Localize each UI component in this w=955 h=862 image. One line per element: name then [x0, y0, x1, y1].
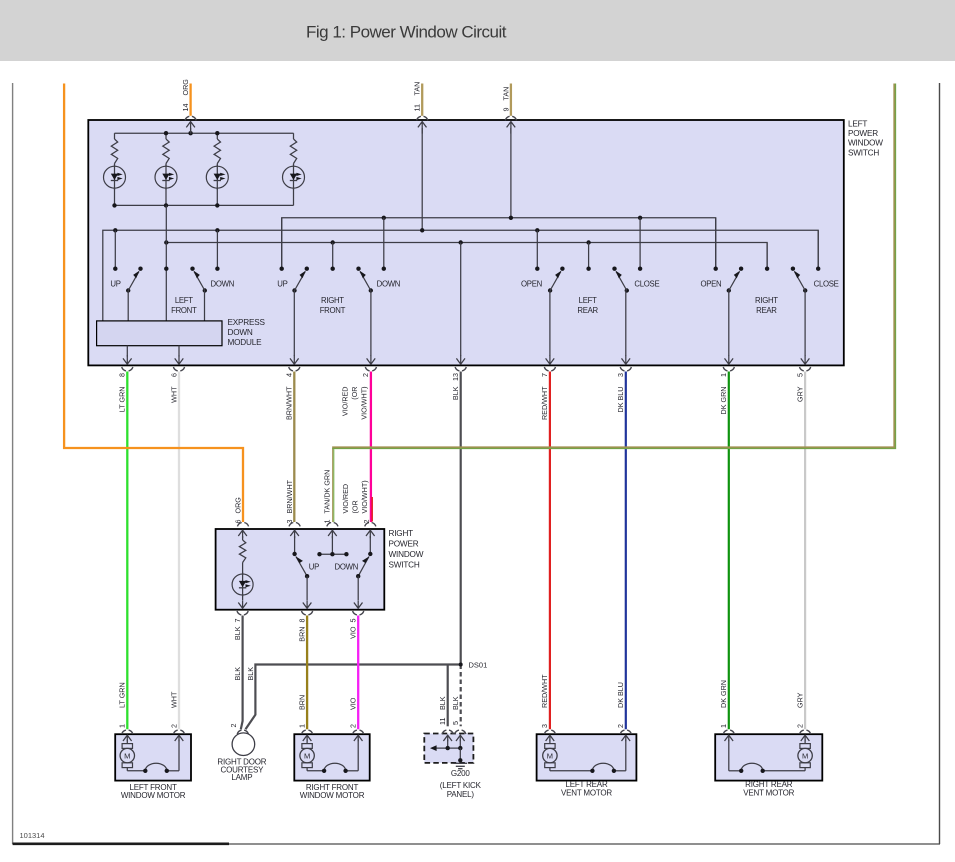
- wire ORG from left edge to right switch pin6: [64, 84, 243, 523]
- svg-text:3: 3: [285, 520, 294, 524]
- LED illumination lamp 3: [206, 165, 228, 206]
- svg-text:DK GRN: DK GRN: [719, 387, 728, 415]
- svg-text:OPEN: OPEN: [700, 279, 721, 288]
- svg-text:TAN/DK GRN: TAN/DK GRN: [323, 470, 332, 514]
- wire left front common from lamp bus through bus C: [165, 205, 167, 321]
- right switch pin8 exit connector and label: [297, 611, 312, 642]
- wire TAN/DK GRN from right edge to right switch pin1: [333, 84, 894, 523]
- svg-text:3: 3: [540, 724, 549, 728]
- wire left front switch arm outputs to express down module: [128, 291, 204, 321]
- right switch pin5 exit connector and label: [349, 611, 364, 639]
- svg-text:5: 5: [795, 373, 804, 377]
- junction dots bus B: [113, 228, 539, 232]
- svg-text:DK BLU: DK BLU: [616, 387, 625, 413]
- switch LEFT REAR contacts: [535, 267, 642, 293]
- pin 6 label: [169, 373, 178, 403]
- svg-text:TAN: TAN: [501, 87, 510, 101]
- svg-text:POWER: POWER: [848, 129, 878, 138]
- resistor lamp R2: [163, 133, 169, 166]
- svg-text:SWITCH: SWITCH: [848, 148, 879, 157]
- svg-text:VIO: VIO: [349, 697, 358, 710]
- svg-text:1: 1: [118, 724, 127, 728]
- wire BLK dashed DS01 to G200 pin5: [460, 665, 462, 727]
- svg-text:FRONT: FRONT: [171, 306, 197, 315]
- svg-text:(LEFT KICK: (LEFT KICK: [440, 781, 482, 790]
- resistor R5 in right switch: [238, 530, 247, 574]
- svg-text:LEFT: LEFT: [175, 296, 193, 305]
- wire DK BLU pin3 to left rear vent motor: [625, 372, 627, 730]
- svg-text:8: 8: [297, 619, 306, 623]
- label RIGHT DOOR COURTESY LAMP: [217, 758, 266, 783]
- LED illumination lamp in right switch: [232, 573, 253, 609]
- svg-text:BLK: BLK: [246, 667, 255, 681]
- wire left rear CLOSE terminal drop: [639, 218, 641, 269]
- svg-text:WINDOW MOTOR: WINDOW MOTOR: [121, 791, 186, 800]
- component right door courtesy lamp: [232, 730, 255, 755]
- wire right front UP terminal drop: [281, 218, 283, 269]
- svg-text:DK BLU: DK BLU: [616, 682, 625, 708]
- svg-text:CLOSE: CLOSE: [814, 279, 839, 288]
- svg-text:(OR: (OR: [351, 500, 360, 513]
- junction dots bus A: [382, 216, 643, 220]
- wire DK GRN pin1 to right rear vent motor: [728, 372, 730, 730]
- svg-text:GRY: GRY: [795, 692, 804, 708]
- svg-text:VIO: VIO: [349, 626, 358, 639]
- switch RIGHT FRONT contacts: [280, 267, 386, 293]
- svg-text:BRN/WHT: BRN/WHT: [285, 479, 294, 513]
- pin 2 connector at big box bottom: [365, 367, 376, 371]
- svg-text:VIO/RED: VIO/RED: [340, 387, 349, 417]
- svg-text:2: 2: [361, 373, 370, 377]
- wire right front DOWN terminal drop: [383, 218, 385, 269]
- component G200 ground splice box: [424, 734, 473, 763]
- G200 pin connectors: [442, 730, 466, 734]
- svg-text:14: 14: [181, 104, 190, 112]
- label RIGHT REAR VENT MOTOR: [743, 780, 794, 797]
- svg-text:13: 13: [451, 373, 460, 381]
- label UP DOWN right switch: [309, 562, 358, 571]
- right switch pin6 entry connector and label: [233, 497, 248, 527]
- svg-text:(OR: (OR: [350, 387, 359, 400]
- wire TAN pin9 top entry: [510, 84, 512, 116]
- wire right rear CLOSE terminal drop: [817, 230, 819, 268]
- svg-text:VENT MOTOR: VENT MOTOR: [743, 788, 794, 797]
- svg-text:RED/WHT: RED/WHT: [540, 386, 549, 420]
- svg-text:BLK: BLK: [451, 696, 460, 710]
- svg-text:5: 5: [349, 619, 358, 623]
- wire right rear switch outputs to pins 1 and 5: [725, 291, 810, 365]
- wire BLK right switch pin7 to courtesy lamp: [241, 616, 243, 730]
- svg-text:101314: 101314: [20, 831, 45, 840]
- svg-text:FRONT: FRONT: [320, 306, 346, 315]
- component LEFT FRONT WINDOW MOTOR box: [115, 734, 191, 780]
- svg-text:2: 2: [795, 724, 804, 728]
- svg-text:M: M: [547, 752, 553, 761]
- svg-text:DOWN: DOWN: [377, 279, 401, 288]
- svg-text:SWITCH: SWITCH: [389, 561, 420, 570]
- svg-text:Fig 1: Power Window Circuit: Fig 1: Power Window Circuit: [306, 23, 507, 42]
- svg-text:7: 7: [233, 619, 242, 623]
- svg-text:M: M: [304, 752, 310, 761]
- svg-text:11: 11: [438, 718, 447, 725]
- motor M in RIGHT REAR VENT MOTOR: [800, 744, 810, 749]
- label RIGHT FRONT WINDOW MOTOR: [300, 783, 365, 800]
- svg-text:EXPRESS: EXPRESS: [228, 318, 266, 327]
- wire VIO right switch pin5 to right front motor pin2: [357, 616, 359, 730]
- svg-text:LAMP: LAMP: [231, 773, 252, 782]
- svg-text:6: 6: [233, 520, 242, 524]
- LED illumination lamp 4: [283, 165, 305, 206]
- svg-text:LEFT: LEFT: [848, 120, 867, 129]
- page frame right border: [939, 83, 941, 844]
- right switch pin1 entry connector and label: [323, 470, 338, 527]
- svg-text:UP: UP: [309, 562, 319, 571]
- pin 6 connector at big box bottom: [173, 367, 184, 371]
- label UP/DOWN LEFT FRONT: [110, 279, 234, 315]
- wire left rear OPEN terminal drop: [536, 230, 538, 268]
- component U2 RIGHT POWER WINDOW SWITCH box: [216, 529, 385, 610]
- svg-text:DK GRN: DK GRN: [719, 680, 728, 708]
- page frame bottom border: [13, 843, 940, 845]
- resistor lamp R3: [214, 133, 220, 166]
- pin labels LEFT FRONT WINDOW MOTOR: [118, 682, 179, 728]
- label LEFT FRONT WINDOW MOTOR: [121, 783, 186, 800]
- wire BRN/WHT pin4 to right switch pin3: [293, 372, 295, 523]
- svg-text:CLOSE: CLOSE: [634, 279, 659, 288]
- svg-text:RIGHT: RIGHT: [321, 296, 344, 305]
- junction dots bus C: [164, 240, 591, 244]
- pin 5 connector at big box bottom: [800, 367, 811, 371]
- svg-text:VIO/WHT): VIO/WHT): [359, 387, 368, 420]
- pin 9 TAN entry arrow into box: [505, 116, 516, 218]
- LED illumination lamp 1: [104, 165, 126, 206]
- wire TAN pin11 top entry: [421, 84, 423, 116]
- wires inside LEFT REAR VENT MOTOR: [546, 735, 631, 773]
- svg-text:1: 1: [719, 373, 728, 377]
- svg-text:RED/WHT: RED/WHT: [540, 674, 549, 708]
- svg-text:OPEN: OPEN: [521, 279, 542, 288]
- svg-text:REAR: REAR: [577, 306, 598, 315]
- motor M in RIGHT FRONT WINDOW MOTOR: [302, 744, 312, 749]
- motor M in LEFT FRONT WINDOW MOTOR: [122, 744, 132, 749]
- label LEFT POWER WINDOW SWITCH: [848, 120, 883, 158]
- svg-text:UP: UP: [277, 279, 287, 288]
- svg-text:DOWN: DOWN: [228, 328, 253, 337]
- wire LT GRN pin8 to left front motor: [126, 372, 128, 730]
- svg-text:8: 8: [118, 373, 127, 377]
- switch LEFT FRONT contacts: [113, 267, 219, 293]
- resistor lamp R4: [290, 133, 296, 166]
- splice DS01: [459, 663, 463, 667]
- page frame left border: [12, 83, 14, 844]
- svg-text:5: 5: [451, 721, 460, 725]
- svg-text:6: 6: [169, 373, 178, 377]
- pin connectors LEFT FRONT WINDOW MOTOR: [122, 730, 185, 734]
- label BLK at G200 pin5: [451, 696, 460, 725]
- right switch pin2 entry connector and label: [341, 480, 376, 526]
- pin 14 ORG label: [181, 79, 190, 112]
- wire left front UP terminal drop: [114, 230, 116, 268]
- svg-text:WHT: WHT: [169, 691, 178, 708]
- pin 14 ORG entry arrow into box: [185, 116, 196, 133]
- svg-text:WHT: WHT: [169, 386, 178, 403]
- pin 7 connector at big box bottom: [544, 367, 555, 371]
- pin 9 TAN label: [501, 87, 510, 112]
- label UP/DOWN RIGHT FRONT: [277, 279, 400, 315]
- label EXPRESS DOWN MODULE: [228, 318, 266, 347]
- svg-text:VIO/RED: VIO/RED: [341, 484, 350, 514]
- wires inside RIGHT REAR VENT MOTOR: [725, 735, 810, 773]
- svg-text:1: 1: [719, 724, 728, 728]
- right switch DOWN contact bar: [317, 530, 348, 556]
- pin labels RIGHT REAR VENT MOTOR: [719, 680, 804, 728]
- svg-text:2: 2: [229, 724, 238, 728]
- wire GRY pin5 to right rear vent motor: [804, 372, 806, 730]
- svg-text:BLK: BLK: [233, 667, 242, 681]
- pin 7 label: [540, 373, 549, 420]
- motor M in LEFT REAR VENT MOTOR: [545, 744, 555, 749]
- svg-text:BRN/WHT: BRN/WHT: [285, 386, 294, 420]
- svg-text:WINDOW: WINDOW: [848, 139, 883, 148]
- label RIGHT POWER WINDOW SWITCH: [389, 529, 424, 570]
- svg-text:M: M: [124, 752, 130, 761]
- label OPEN/CLOSE LEFT REAR: [521, 279, 659, 315]
- wire left rear common drop: [588, 243, 590, 269]
- LED illumination lamp 2: [155, 165, 177, 206]
- svg-text:UP: UP: [110, 279, 120, 288]
- wire WHT pin6 to left front motor: [178, 372, 180, 730]
- svg-text:BLK: BLK: [451, 386, 460, 400]
- wire left front DOWN terminal drop: [216, 230, 218, 268]
- wire internal bus B: [103, 230, 818, 321]
- pin 2 label: [361, 373, 370, 377]
- svg-text:RIGHT: RIGHT: [755, 296, 778, 305]
- pin 1 label: [719, 373, 728, 414]
- pin 13 label: [451, 373, 460, 400]
- pin 8 label: [118, 373, 127, 412]
- wire right front switch outputs to pins 4 and 2: [290, 291, 375, 365]
- svg-text:1: 1: [297, 724, 306, 728]
- svg-text:WINDOW MOTOR: WINDOW MOTOR: [300, 791, 365, 800]
- pin connectors RIGHT FRONT WINDOW MOTOR: [302, 730, 364, 734]
- svg-text:RIGHT: RIGHT: [389, 529, 414, 538]
- pin 4 connector at big box bottom: [289, 367, 300, 371]
- svg-text:PANEL): PANEL): [447, 790, 475, 799]
- page frame bottom-left dark segment: [13, 842, 229, 845]
- pin 3 connector at big box bottom: [620, 367, 631, 371]
- svg-text:WINDOW: WINDOW: [389, 550, 424, 559]
- label LEFT REAR VENT MOTOR: [561, 780, 612, 797]
- svg-text:2: 2: [349, 724, 358, 728]
- wire pin13 BLK drop inside box: [456, 243, 465, 365]
- component EXPRESS DOWN MODULE box: [97, 321, 222, 346]
- svg-text:7: 7: [540, 373, 549, 377]
- wire lamp top bus: [115, 132, 294, 134]
- wire internal bus C: [166, 243, 767, 269]
- svg-text:2: 2: [362, 520, 371, 524]
- svg-text:3: 3: [616, 373, 625, 377]
- wire right rear OPEN terminal drop: [715, 218, 717, 269]
- pin 11 TAN entry arrow into box: [417, 116, 428, 230]
- svg-text:BRN: BRN: [297, 695, 306, 710]
- pin 3 label: [616, 373, 625, 412]
- right switch UP contact: [290, 530, 311, 608]
- svg-text:VENT MOTOR: VENT MOTOR: [561, 788, 612, 797]
- svg-text:POWER: POWER: [389, 540, 419, 549]
- switch RIGHT REAR contacts: [714, 267, 821, 293]
- svg-text:DS01: DS01: [469, 661, 488, 670]
- wire right front common drop: [332, 243, 334, 269]
- resistor lamp R1: [111, 133, 117, 166]
- wire lamp bottom bus: [115, 204, 294, 206]
- svg-text:9: 9: [501, 108, 510, 112]
- svg-text:11: 11: [413, 104, 422, 111]
- right switch pin3 entry connector and label: [285, 479, 300, 526]
- wires inside G200: [430, 735, 465, 762]
- svg-text:2: 2: [169, 724, 178, 728]
- junction dots lamp buses: [112, 131, 219, 208]
- right switch pin7 exit connector and label: [233, 611, 248, 640]
- pin 2 VIO/RED (OR VIO/WHT) 3-line label: [340, 387, 368, 420]
- pin labels RIGHT FRONT WINDOW MOTOR: [297, 724, 357, 728]
- wires inside RIGHT FRONT WINDOW MOTOR: [303, 735, 363, 773]
- wire ORG pin14 top entry: [189, 84, 191, 116]
- wire express down module outputs: [123, 346, 183, 365]
- label G200 (LEFT KICK PANEL): [440, 769, 482, 799]
- component LEFT REAR VENT MOTOR box: [537, 734, 637, 780]
- wire left rear switch outputs to pins 7 and 3: [546, 291, 631, 365]
- svg-text:DOWN: DOWN: [335, 562, 359, 571]
- wire BRN right switch pin8 to right front motor pin1: [306, 616, 308, 730]
- svg-text:LT GRN: LT GRN: [118, 682, 127, 708]
- component U1 LEFT POWER WINDOW SWITCH box: [88, 120, 844, 365]
- svg-text:4: 4: [285, 373, 294, 377]
- svg-text:ORG: ORG: [233, 497, 242, 514]
- pin 11 TAN label: [413, 82, 422, 112]
- svg-text:GRY: GRY: [795, 386, 804, 402]
- right switch second arm: [354, 530, 375, 608]
- svg-text:2: 2: [616, 724, 625, 728]
- pin 13 connector at big box bottom: [455, 367, 466, 371]
- svg-text:M: M: [802, 752, 808, 761]
- label BLK at G200 pin11: [438, 696, 447, 725]
- pin connectors LEFT REAR VENT MOTOR: [544, 730, 631, 734]
- pin connectors RIGHT REAR VENT MOTOR: [723, 730, 811, 734]
- svg-text:TAN: TAN: [413, 82, 422, 96]
- svg-text:REAR: REAR: [756, 306, 777, 315]
- wire internal bus A: [282, 218, 716, 269]
- wires inside LEFT FRONT WINDOW MOTOR: [123, 735, 183, 773]
- svg-text:DOWN: DOWN: [211, 279, 235, 288]
- pin 4 label: [285, 373, 294, 420]
- pin 1 connector at big box bottom: [723, 367, 734, 371]
- pin 5 label: [795, 373, 804, 402]
- label BLK BLK pair above courtesy lamp: [233, 667, 255, 681]
- label OPEN/CLOSE RIGHT REAR: [700, 279, 838, 315]
- ground symbol G200: [453, 763, 467, 768]
- svg-text:BLK: BLK: [438, 696, 447, 710]
- wire right rear common drop: [766, 243, 768, 269]
- component RIGHT REAR VENT MOTOR box: [715, 734, 822, 780]
- wire RED/WHT pin7 to left rear vent motor: [549, 372, 551, 730]
- svg-text:G200: G200: [451, 769, 471, 778]
- svg-text:LT GRN: LT GRN: [118, 387, 127, 413]
- svg-text:VIO/WHT): VIO/WHT): [360, 480, 369, 513]
- pin labels LEFT REAR VENT MOTOR: [540, 674, 625, 728]
- svg-text:ORG: ORG: [181, 79, 190, 96]
- wire BLK bus drop to G200 pin11: [447, 665, 449, 727]
- wire BLK pin13 down to DS01: [460, 372, 462, 665]
- pin 8 connector at big box bottom: [122, 367, 133, 371]
- wire BLK ground bus to courtesy lamp and DS01: [246, 665, 461, 730]
- component RIGHT FRONT WINDOW MOTOR box: [294, 734, 369, 780]
- svg-text:BRN: BRN: [297, 627, 306, 642]
- title header bar: [0, 0, 955, 61]
- svg-text:LEFT: LEFT: [579, 296, 597, 305]
- svg-text:BLK: BLK: [233, 626, 242, 640]
- svg-text:MODULE: MODULE: [228, 338, 263, 347]
- svg-text:1: 1: [323, 520, 332, 524]
- wire VIO/RED pin2 to right switch pin2: [370, 372, 372, 523]
